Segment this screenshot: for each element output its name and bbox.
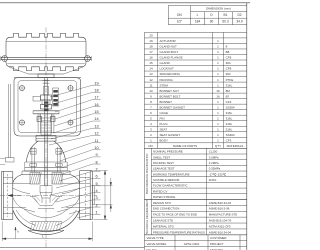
svg-text:B8: B8 [226,50,230,54]
svg-text:9: 9 [95,153,97,157]
svg-text:PIN: PIN [160,116,165,120]
stem connector [33,87,52,110]
svg-text:MATERIALS: MATERIALS [227,144,244,148]
svg-text:316L: 316L [226,116,233,120]
svg-text:11: 11 [95,139,99,143]
packing box with packing rings [41,122,51,135]
left line flange [1,172,12,220]
svg-text:GLAND FLANGE: GLAND FLANGE [160,56,183,60]
svg-text:VALVE MODEL: VALVE MODEL [147,242,167,246]
body outline [3,174,90,231]
svg-text:10: 10 [94,146,98,150]
svg-text:GLAND BOLT: GLAND BOLT [160,50,179,54]
svg-text:1/2": 1/2" [177,20,183,24]
svg-text:ACTUATOR: ACTUATOR [160,39,177,43]
svg-text:6: 6 [95,175,97,179]
svg-text:END CONNECTION: END CONNECTION [153,207,179,211]
actuator upper diaphragm case [6,33,86,56]
svg-text:WORKING TEMPERATURE: WORKING TEMPERATURE [153,172,190,176]
svg-text:CAGE: CAGE [160,111,169,115]
bonnet [25,141,67,171]
svg-text:ASME B16.5-96: ASME B16.5-96 [209,207,230,211]
svg-text:GLAND: GLAND [160,61,171,65]
svg-text:SPACER RING: SPACER RING [160,72,181,76]
svg-text:316L: 316L [226,111,233,115]
svg-text:BODY: BODY [160,138,169,142]
svg-text:PRESSURE-TEMPERATURE RATINGS: PRESSURE-TEMPERATURE RATINGS [153,230,205,234]
svg-text:CF3: CF3 [226,138,232,142]
parts list table [144,32,246,148]
flow arrow [8,194,21,197]
cage sections [30,173,63,185]
svg-text:20: 20 [149,34,153,38]
svg-text:16: 16 [216,94,220,98]
svg-text:13: 13 [149,72,153,76]
performance specification block [144,148,246,199]
svg-text:90: 90 [210,20,214,24]
svg-text:DESIGN STD: DESIGN STD [153,201,171,205]
svg-text:FACE TO FACE OF END TO END: FACE TO FACE OF END TO END [153,213,197,217]
svg-text:CF3: CF3 [226,100,232,104]
svg-text:PLUG: PLUG [160,122,169,126]
yoke corner bolt holes [19,85,74,126]
svg-text:7: 7 [95,167,97,171]
svg-text:4: 4 [95,189,97,193]
svg-text:SEAT: SEAT [160,127,168,131]
actuator bottom boss [38,74,54,78]
body/bonnet flange joint [22,171,70,174]
svg-text:FLOW CHARACTERISTIC: FLOW CHARACTERISTIC [153,184,188,188]
travel indicator plate [53,88,59,106]
actuator case flange with end bolts [1,56,92,62]
svg-text:18: 18 [94,89,98,93]
svg-text:10: 10 [149,89,153,93]
svg-text:SHELL TEST: SHELL TEST [153,155,170,159]
svg-text:TECHNICAL REQUIREMENT: TECHNICAL REQUIREMENT [145,199,149,234]
svg-text:17: 17 [149,50,153,54]
svg-text:L: L [42,235,44,239]
svg-text:CF8: CF8 [226,56,232,60]
svg-text:BONNET: BONNET [160,100,173,104]
svg-text:2: 2 [95,203,97,207]
svg-text:L: L [197,13,199,17]
svg-text:ASME B16.34-04: ASME B16.34-04 [209,201,232,205]
svg-text:17: 17 [94,96,98,100]
svg-text:14: 14 [94,117,98,121]
svg-text:PERFORMANCE SPECIFICATION: PERFORMANCE SPECIFICATION [145,153,149,194]
svg-text:60.3: 60.3 [222,20,228,24]
svg-text:ASTM A351-CF3: ASTM A351-CF3 [209,224,231,228]
svg-text:18: 18 [149,45,153,49]
svg-text:LEAKAGE STD: LEAKAGE STD [153,219,173,223]
bonnet studs and nuts [30,147,62,172]
svg-text:-17℃~232℃: -17℃~232℃ [209,172,227,176]
dimension D (flange OD) [94,171,108,220]
svg-text:RATED STROKE: RATED STROKE [153,195,175,199]
svg-text:W.DG: W.DG [209,178,217,182]
actuator lower diaphragm case [6,61,86,75]
svg-text:11: 11 [149,83,152,87]
svg-text:19: 19 [149,39,153,43]
sheet right border [246,3,248,250]
svg-text:3.0MPa: 3.0MPa [209,155,219,159]
svg-text:LOCKNUT: LOCKNUT [160,67,175,71]
locknut [36,136,56,142]
svg-text:MATERIAL STD: MATERIAL STD [153,224,174,228]
svg-text:304: 304 [226,72,231,76]
svg-text:BONNET BOLT: BONNET BOLT [160,94,181,98]
sheet top border [0,2,250,4]
svg-text:BONNET GASKET: BONNET GASKET [160,105,186,109]
stem [45,78,48,186]
dimension L (face to face) [2,222,92,242]
svg-text:316L: 316L [226,83,233,87]
svg-text:NAME OF PARTS: NAME OF PARTS [173,144,197,148]
drawing area bottom frame line [0,246,144,248]
svg-text:SUITABLE MEDIUM: SUITABLE MEDIUM [153,178,180,182]
svg-text:3: 3 [95,196,97,200]
svg-text:D2: D2 [237,13,241,17]
svg-text:STEM: STEM [160,83,169,87]
svg-text:PTFE: PTFE [226,78,234,82]
svg-text:12: 12 [149,78,153,82]
svg-text:DN: DN [177,13,182,17]
svg-text:316L: 316L [226,127,233,131]
svg-text:34.9: 34.9 [236,20,242,24]
stem adapter rungs [41,81,51,121]
svg-text:PACKING: PACKING [160,78,174,82]
dimension D2 (raised face) [96,178,113,212]
svg-text:DIMENSION (mm): DIMENSION (mm) [206,7,231,11]
threaded stem section [44,102,48,111]
svg-text:QTY: QTY [215,144,221,148]
svg-text:NOMINAL PRESSURE: NOMINAL PRESSURE [153,150,183,154]
svg-text:14: 14 [149,67,153,71]
technical requirement block [144,199,246,234]
title block [144,235,246,250]
svg-text:LEAKAGE TEST: LEAKAGE TEST [153,167,175,171]
svg-text:VALVE TYPE: VALVE TYPE [147,236,164,240]
svg-text:304: 304 [226,61,231,65]
right line flange [80,171,95,220]
svg-text:316L: 316L [226,122,233,126]
svg-text:SS304: SS304 [226,105,235,109]
svg-text:CUSTOMER: CUSTOMER [210,236,227,240]
yoke [14,78,81,136]
svg-text:13: 13 [94,124,98,128]
svg-text:NO.: NO. [148,144,154,148]
bottom band (hatched) [28,222,64,235]
svg-text:GLAND NUT: GLAND NUT [160,45,178,49]
svg-text:ASME B16.34-04: ASME B16.34-04 [209,230,232,234]
gland bolts [37,114,55,133]
svg-text:BONNET NUT: BONNET NUT [160,89,180,93]
svg-text:16: 16 [216,89,220,93]
dimension table [168,6,247,25]
svg-text:ANSI B16.104-76: ANSI B16.104-76 [209,219,232,223]
svg-text:SS304: SS304 [226,133,235,137]
svg-text:12: 12 [94,132,98,136]
svg-text:PROJECT: PROJECT [210,242,224,246]
svg-text:8M: 8M [226,89,231,93]
svg-text:15: 15 [94,110,98,114]
svg-text:0.35MPa: 0.35MPa [209,167,221,171]
seat ring [30,196,62,208]
svg-text:CF8: CF8 [226,67,232,71]
svg-text:GPS1-C910: GPS1-C910 [184,242,200,246]
svg-text:B1: B1 [224,13,228,17]
part callout numbers and leader lines [49,81,101,218]
stem position indicator rod (left) [5,84,14,162]
svg-text:8: 8 [95,160,97,164]
horizontal pipe centerline [0,195,97,197]
svg-text:5: 5 [95,182,97,186]
plug [40,186,52,203]
svg-text:CL150: CL150 [209,150,218,154]
svg-text:1: 1 [95,211,97,215]
svg-text:16: 16 [149,56,153,60]
svg-text:16: 16 [94,103,98,107]
svg-text:184: 184 [195,20,201,24]
left edge stub lines [0,158,5,164]
svg-text:2.2MPa: 2.2MPa [209,161,219,165]
svg-text:RATED CV: RATED CV [153,189,167,193]
svg-text:15: 15 [149,61,153,65]
vertical centerline [45,28,47,249]
gland flange [33,111,59,118]
svg-text:B7: B7 [226,94,230,98]
svg-text:PACKING TEST: PACKING TEST [153,161,174,165]
svg-text:MANUFACTURE STD: MANUFACTURE STD [209,213,238,217]
svg-text:19: 19 [94,81,98,85]
svg-text:SEAT GASKET: SEAT GASKET [160,133,181,137]
